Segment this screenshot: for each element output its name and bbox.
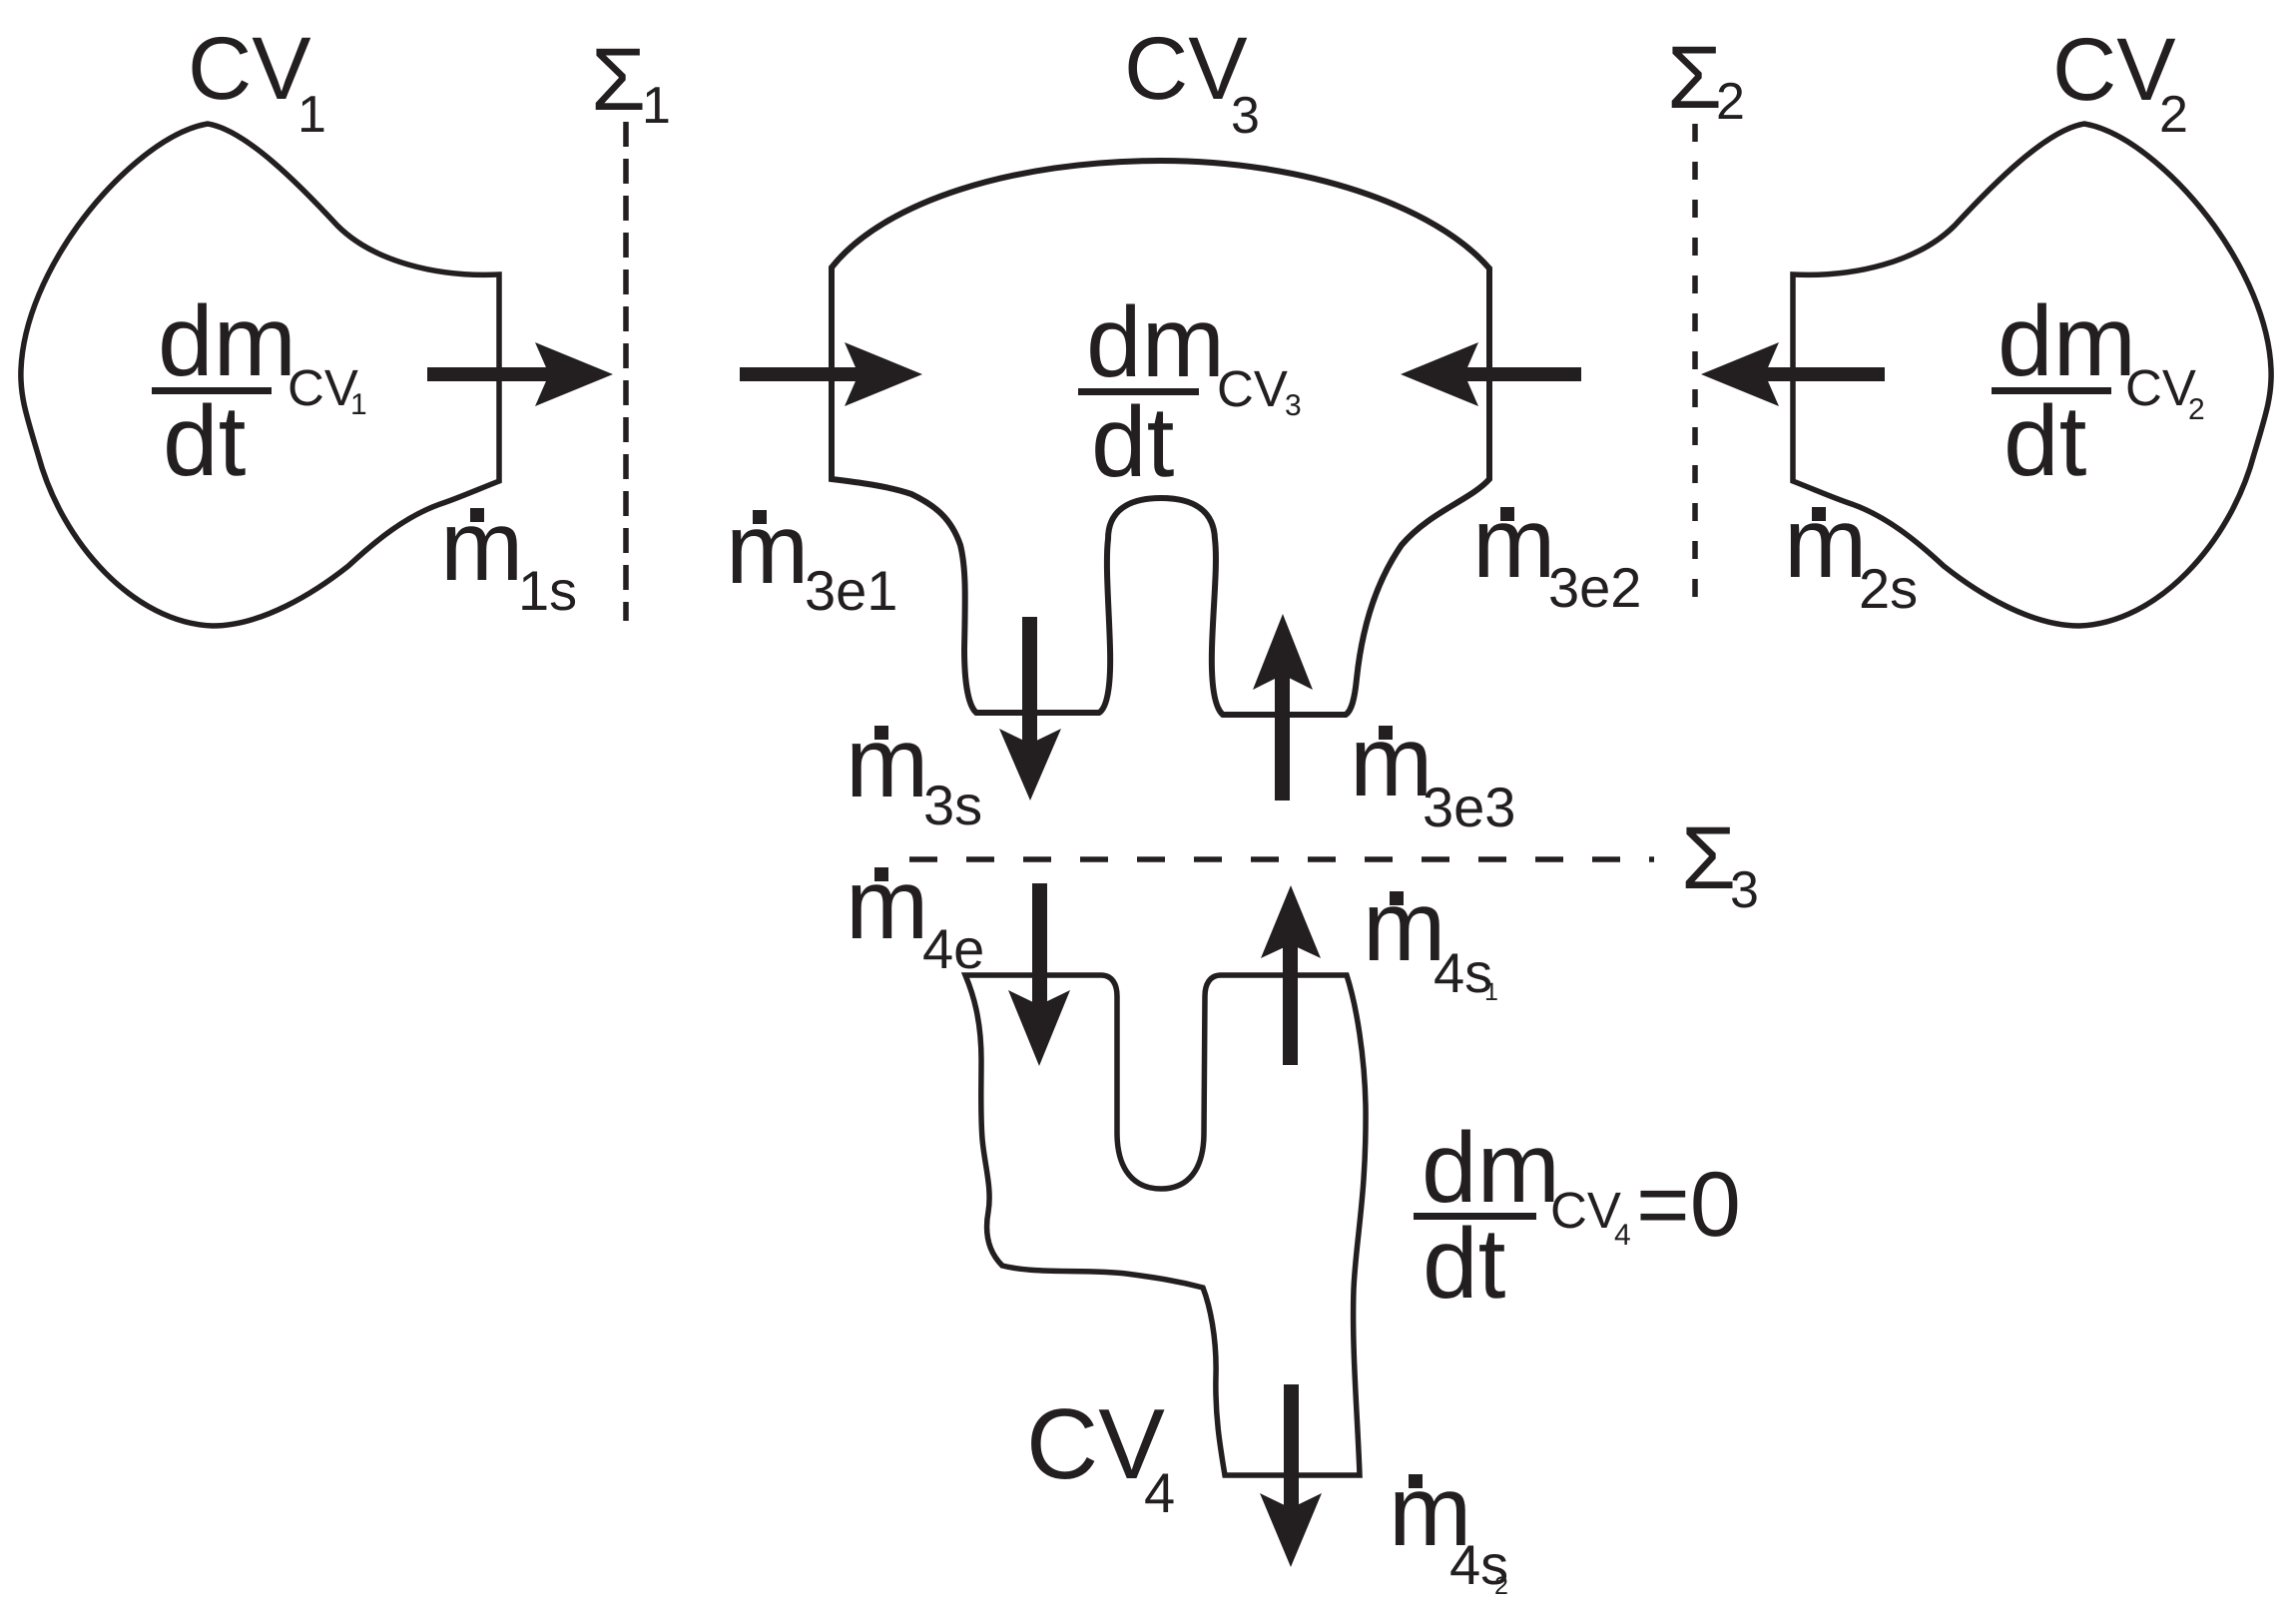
svg-text:2: 2 bbox=[2188, 393, 2205, 426]
svg-text:m: m bbox=[1472, 487, 1555, 599]
svg-text:CV: CV bbox=[287, 359, 358, 416]
svg-text:3e3: 3e3 bbox=[1423, 776, 1515, 838]
svg-text:3e2: 3e2 bbox=[1548, 556, 1641, 619]
svg-text:dt: dt bbox=[1091, 386, 1175, 498]
svg-text:dm: dm bbox=[158, 285, 296, 397]
svg-text:3: 3 bbox=[1730, 861, 1759, 919]
svg-text:4e: 4e bbox=[922, 917, 984, 980]
svg-text:3: 3 bbox=[1231, 87, 1260, 145]
svg-text:dt: dt bbox=[2004, 385, 2087, 497]
svg-text:CV: CV bbox=[1217, 360, 1288, 417]
svg-text:2s: 2s bbox=[1859, 557, 1918, 620]
svg-text:1: 1 bbox=[350, 388, 367, 421]
svg-text:3: 3 bbox=[1285, 389, 1302, 422]
svg-text:3s: 3s bbox=[923, 774, 982, 836]
svg-text:CV: CV bbox=[2125, 359, 2196, 416]
svg-text:m: m bbox=[440, 490, 523, 602]
svg-text:dm: dm bbox=[1086, 286, 1225, 398]
svg-text:1: 1 bbox=[642, 77, 671, 135]
svg-text:m: m bbox=[846, 848, 928, 960]
svg-text:m: m bbox=[1350, 706, 1433, 817]
svg-text:4: 4 bbox=[1144, 1461, 1175, 1524]
svg-text:2: 2 bbox=[2159, 86, 2188, 144]
svg-text:3e1: 3e1 bbox=[805, 559, 897, 622]
svg-text:m: m bbox=[1784, 487, 1867, 599]
svg-text:dt: dt bbox=[1423, 1208, 1506, 1320]
svg-text:m: m bbox=[726, 493, 809, 605]
svg-text:1: 1 bbox=[297, 86, 326, 144]
svg-text:1: 1 bbox=[1484, 978, 1498, 1006]
svg-text:dm: dm bbox=[1998, 285, 2136, 397]
svg-text:CV: CV bbox=[2052, 19, 2176, 119]
svg-text:2: 2 bbox=[1716, 73, 1745, 131]
svg-text:Σ: Σ bbox=[1667, 27, 1722, 127]
svg-text:m: m bbox=[846, 707, 928, 818]
svg-text:dt: dt bbox=[163, 385, 247, 497]
svg-text:=0: =0 bbox=[1636, 1154, 1741, 1256]
svg-text:1s: 1s bbox=[518, 559, 577, 622]
svg-text:CV: CV bbox=[1550, 1182, 1621, 1239]
svg-text:CV: CV bbox=[188, 18, 311, 118]
svg-text:2: 2 bbox=[1494, 1572, 1508, 1600]
svg-text:Σ: Σ bbox=[591, 29, 646, 129]
svg-text:CV: CV bbox=[1124, 18, 1248, 118]
svg-text:Σ: Σ bbox=[1681, 807, 1736, 907]
svg-text:4: 4 bbox=[1614, 1219, 1631, 1252]
